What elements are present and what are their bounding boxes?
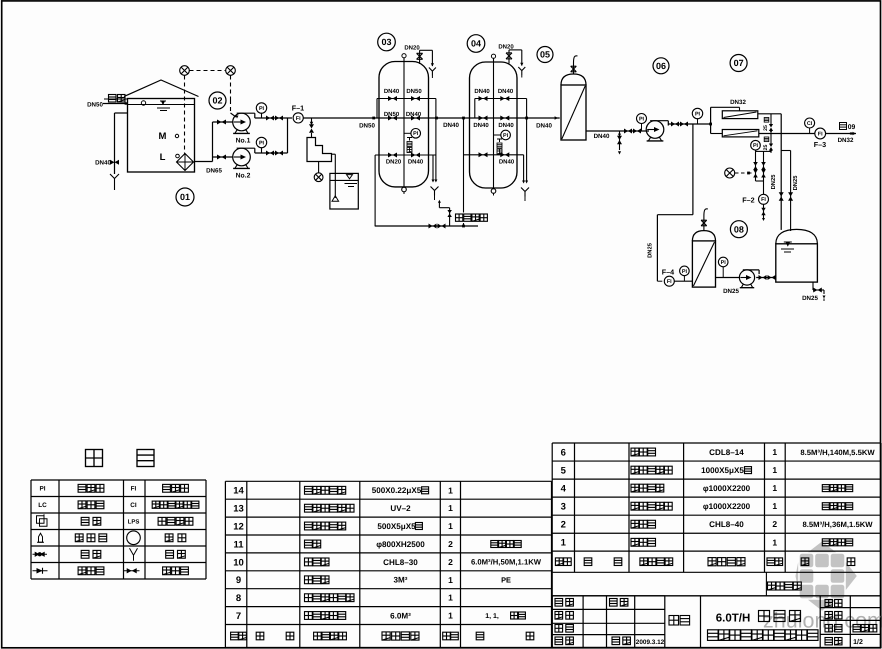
instrument PI pump1 — [256, 103, 266, 113]
svg-text:2: 2 — [448, 557, 453, 567]
vessel V03 top nozzle — [402, 54, 406, 58]
svg-text:PI: PI — [682, 269, 688, 275]
wire P10 discharge — [756, 277, 776, 279]
wire V03 right loop — [435, 99, 437, 182]
svg-text:1: 1 — [772, 537, 777, 547]
wire lamp to valves — [749, 172, 752, 174]
instrument FI F-1 — [293, 113, 303, 123]
svg-text:DN40: DN40 — [594, 133, 610, 140]
RO module 2 — [722, 130, 759, 137]
valve V04 up-left — [479, 96, 488, 101]
wire drain branch 05 — [619, 131, 621, 150]
wire V03 left bypass — [376, 99, 378, 119]
right equipment table grid — [552, 442, 881, 444]
legend table grid — [31, 479, 206, 481]
wire conc branch right — [781, 150, 790, 152]
svg-text:5: 5 — [561, 465, 567, 476]
wire V03 main crossing — [379, 117, 429, 119]
legend r4 circle symbol — [127, 531, 141, 545]
svg-text:DN32: DN32 — [730, 99, 746, 106]
pump P10 pure water — [739, 270, 754, 285]
tag 07 — [730, 55, 747, 72]
RO module 1 — [722, 111, 758, 119]
legend r2 conductivity — [152, 501, 159, 508]
instrument PI after F08 — [718, 257, 728, 267]
valve check down — [309, 124, 314, 133]
label conc1 (hanzi+25) — [764, 118, 769, 123]
label raw-water (hanzi) — [109, 95, 117, 103]
wire dashed level probe — [184, 76, 186, 154]
tank T01 water level line — [128, 104, 195, 106]
svg-text:DN40: DN40 — [498, 122, 514, 129]
vessel V04 bottom drain — [491, 189, 496, 194]
construction-unit row — [765, 572, 767, 596]
valve air check — [447, 210, 452, 217]
svg-text:DN40: DN40 — [536, 123, 552, 130]
valve conc v1 — [779, 192, 784, 201]
wire V03 vent line — [419, 50, 421, 64]
valve tank drain — [110, 160, 119, 165]
drain Y V03 vent — [431, 71, 433, 75]
wire dashed lamp — [735, 172, 747, 174]
svg-text:No.2: No.2 — [236, 173, 251, 180]
legend r5 discharge — [166, 550, 174, 558]
wire P06 discharge — [668, 123, 710, 125]
legend r4 water-ejector — [75, 534, 83, 542]
svg-text:DN40: DN40 — [474, 88, 490, 95]
svg-text:11: 11 — [233, 539, 244, 550]
wire discharge header — [287, 118, 289, 153]
node air junction — [462, 225, 465, 228]
legend r6 stop valve symbol — [124, 570, 140, 572]
wire recirc H — [756, 150, 772, 152]
wire pump06 junction down — [692, 124, 694, 215]
svg-text:CHL8–40: CHL8–40 — [709, 520, 744, 529]
svg-text:F–3: F–3 — [814, 140, 826, 149]
svg-text:25: 25 — [763, 145, 769, 151]
valve V03 up-left — [388, 96, 397, 101]
svg-text:04: 04 — [471, 39, 481, 49]
svg-text:1, 1,: 1, 1, — [485, 613, 499, 620]
wire V03 backwash down — [374, 155, 376, 226]
drain Y symbol — [114, 179, 116, 185]
svg-text:01: 01 — [180, 192, 190, 202]
instrument PI V04 — [501, 130, 511, 140]
svg-text:CI: CI — [807, 121, 813, 127]
wire V04 main crossing — [470, 117, 518, 119]
lamp ejector — [314, 173, 323, 182]
svg-text:1000X5μX5: 1000X5μX5 — [701, 466, 744, 475]
instrument PI before F08 — [680, 266, 690, 276]
wire V03 upper branch — [377, 98, 436, 100]
ejector (water jet) step shape — [307, 138, 332, 162]
svg-text:L: L — [160, 152, 166, 163]
svg-text:4: 4 — [561, 484, 567, 495]
svg-text:CI: CI — [130, 502, 137, 509]
wire V04 left bypass — [474, 99, 476, 119]
node RO feed junction — [709, 123, 712, 126]
svg-text:PE: PE — [501, 576, 511, 585]
svg-text:DN20: DN20 — [498, 43, 514, 50]
valve recirc 1 — [753, 170, 758, 178]
filter F05 dome — [561, 74, 586, 85]
svg-text:CHL8–30: CHL8–30 — [383, 558, 418, 567]
wire main 03-04 — [429, 117, 470, 119]
pure water tank body — [776, 244, 818, 282]
filter F08 dome — [692, 231, 715, 241]
label to-09 (hanzi+09) — [840, 123, 847, 130]
tag 03 — [378, 33, 396, 51]
svg-text:φ800XH2500: φ800XH2500 — [376, 540, 425, 549]
svg-text:03: 03 — [381, 37, 391, 47]
instrument FI F-3 — [815, 128, 826, 139]
svg-text:PI: PI — [259, 106, 265, 112]
svg-text:FI: FI — [667, 279, 672, 285]
valve V03 main-right — [411, 116, 420, 121]
tb scale — [825, 600, 832, 607]
valve pump1 discharge dbl — [266, 116, 274, 121]
wire compressed air main — [375, 225, 478, 227]
valve V03 up-right — [411, 96, 420, 101]
valve pump2 suction — [217, 155, 226, 160]
valve V04 main-right — [500, 116, 509, 121]
svg-text:2: 2 — [448, 539, 453, 549]
vessel V04 top nozzle — [491, 54, 495, 58]
label conc2 (hanzi+25) — [764, 137, 769, 142]
wire recirc V2 — [763, 151, 765, 194]
svg-text:PI: PI — [695, 111, 701, 117]
svg-text:DN50: DN50 — [384, 111, 400, 118]
svg-text:PI: PI — [721, 260, 727, 266]
drain Y V03 — [434, 191, 436, 196]
valve P06 discharge dbl — [671, 122, 679, 127]
svg-text:06: 06 — [656, 61, 666, 71]
svg-text:No.1: No.1 — [236, 138, 251, 145]
svg-text:DN50: DN50 — [87, 102, 103, 109]
svg-text:DN32: DN32 — [838, 137, 854, 144]
svg-text:6.0M³: 6.0M³ — [390, 611, 411, 620]
arrows V04 drain — [522, 181, 525, 184]
svg-text:14: 14 — [233, 486, 244, 497]
valve V04 up-right — [500, 96, 509, 101]
chem tank level mark — [347, 175, 353, 179]
valve V04 main-left — [479, 116, 488, 121]
wire pump1 discharge — [255, 117, 288, 119]
svg-text:2: 2 — [772, 519, 777, 529]
valve V03 lo-right — [411, 153, 420, 158]
svg-text:500X0.22μX5: 500X0.22μX5 — [372, 486, 422, 495]
svg-text:8.5M³/H,36M,1.5KW: 8.5M³/H,36M,1.5KW — [802, 520, 873, 529]
svg-text:13: 13 — [233, 504, 244, 515]
svg-text:LC: LC — [38, 502, 47, 509]
legend r2 level-meter — [78, 501, 86, 509]
instrument FI F-4 — [664, 276, 674, 286]
svg-text:3: 3 — [561, 502, 566, 513]
vessel V04 center pipe — [493, 58, 495, 188]
svg-text:PI: PI — [259, 140, 265, 146]
legend r6 stop-valve — [163, 567, 171, 575]
wire recirc join — [756, 180, 764, 182]
svg-text:2: 2 — [561, 520, 566, 531]
svg-text:6.0M³/H,50M,1.1KW: 6.0M³/H,50M,1.1KW — [471, 558, 542, 567]
svg-text:8: 8 — [236, 593, 241, 604]
valve pump2 discharge dbl — [266, 151, 274, 156]
svg-text:500X5μX5: 500X5μX5 — [377, 522, 416, 531]
instrument PI pump2 — [256, 137, 266, 147]
legend r4 ejector symbol — [39, 533, 43, 542]
title block grid — [552, 595, 665, 597]
instrument PI after P06 — [692, 108, 702, 118]
wire product out — [826, 133, 856, 135]
svg-text:1: 1 — [561, 538, 567, 549]
svg-text:12: 12 — [233, 521, 244, 532]
wire V04 right loop — [526, 99, 528, 183]
tag 02 — [209, 92, 226, 109]
wire header to F-1 — [288, 117, 293, 119]
tank T01 body — [128, 99, 195, 173]
tank T01 roof — [124, 80, 199, 97]
svg-text:DN25: DN25 — [792, 175, 799, 191]
svg-text:DN50: DN50 — [359, 123, 375, 130]
filter F08 body — [692, 241, 715, 287]
wire F-2 drain — [763, 204, 765, 219]
wire dashed to pump control — [230, 76, 232, 101]
legend r1 pressure-gauge — [78, 484, 86, 492]
wire recirc V1 — [755, 151, 757, 181]
tag 05 — [537, 47, 553, 63]
svg-text:DN20: DN20 — [404, 44, 420, 51]
pump P06 high pressure — [646, 121, 664, 139]
chem tank foot valve — [332, 196, 339, 201]
svg-text:PI: PI — [39, 486, 45, 493]
instrument PI before pump06 — [637, 114, 647, 124]
svg-text:1: 1 — [772, 465, 777, 475]
wire tank outlet DN65 — [195, 161, 213, 163]
node V03 outlet — [435, 117, 438, 120]
svg-text:1: 1 — [448, 485, 453, 495]
svg-text:1: 1 — [448, 575, 453, 585]
label compressed-air (hanzi) — [454, 213, 488, 224]
center table header — [231, 632, 239, 640]
wire V03 lower branch — [375, 154, 436, 156]
wire raw water inlet — [103, 103, 128, 105]
svg-text:DN50: DN50 — [406, 88, 422, 95]
svg-text:1: 1 — [448, 611, 453, 621]
valve V04 vent — [506, 53, 512, 59]
lamp LS-A — [180, 66, 190, 76]
svg-text:10: 10 — [233, 557, 244, 568]
valve drain 05 — [617, 136, 622, 144]
filter F08 vent — [703, 216, 705, 231]
svg-text:3M³: 3M³ — [394, 576, 408, 585]
svg-text:02: 02 — [212, 96, 222, 106]
svg-text:DN40: DN40 — [499, 158, 515, 165]
wire concentrate drop 2 — [770, 134, 772, 144]
wire valve to ejector — [311, 133, 313, 138]
wire pump suction manifold — [213, 121, 234, 123]
svg-text:25: 25 — [763, 125, 769, 131]
svg-text:6.0T/H: 6.0T/H — [716, 613, 751, 625]
svg-text:LPS: LPS — [128, 519, 140, 526]
legend r3 low-pressure-switch — [158, 517, 166, 525]
vessel V03 shell — [379, 62, 429, 187]
tb stage — [825, 625, 832, 632]
tb date — [612, 637, 620, 645]
svg-text:DN40: DN40 — [406, 111, 422, 118]
wire RO feed bottom — [711, 133, 723, 135]
tb page — [825, 638, 832, 645]
svg-text:08: 08 — [734, 224, 744, 234]
node V03 inlet — [372, 117, 375, 120]
svg-text:CDL8–14: CDL8–14 — [709, 448, 744, 457]
svg-text:05: 05 — [540, 50, 550, 60]
svg-text:DN40: DN40 — [473, 122, 489, 129]
wire ejector suction — [332, 153, 336, 155]
tag 04 — [467, 35, 485, 53]
svg-text:1: 1 — [448, 521, 453, 531]
tb drawing-name label — [669, 616, 679, 626]
tank T01 float — [141, 101, 145, 105]
sampling tap V03 — [409, 138, 411, 141]
wire ejector drain stem — [318, 162, 320, 173]
wire RO1 concentrate — [758, 113, 781, 115]
wire F05 outlet — [586, 130, 649, 132]
svg-text:DN25: DN25 — [802, 295, 818, 302]
tb review — [555, 637, 563, 645]
wire dashed lamp link — [190, 70, 226, 72]
vessel V04 shell — [470, 62, 518, 188]
svg-text:DN40: DN40 — [443, 122, 459, 129]
svg-text:2009.3.12: 2009.3.12 — [636, 639, 665, 646]
wire air injector riser — [449, 208, 451, 226]
instrument PI RO — [751, 140, 761, 150]
valve V03 lo-left — [388, 153, 397, 158]
svg-text:1: 1 — [772, 447, 777, 457]
pump No.1 — [233, 113, 251, 131]
arrows V03 drain — [432, 180, 435, 183]
svg-text:PI: PI — [639, 116, 645, 122]
node V04 inlet — [462, 117, 465, 120]
svg-text:1/2: 1/2 — [853, 638, 863, 646]
vessel V03 bottom drain — [402, 187, 407, 192]
legend title (hanzi large) — [86, 450, 103, 467]
legend r5 valve — [81, 550, 89, 558]
svg-text:1: 1 — [772, 483, 777, 493]
svg-text:FI: FI — [818, 131, 823, 137]
svg-text:PI: PI — [753, 143, 759, 149]
svg-text:M: M — [159, 131, 167, 142]
lamp RO flush — [725, 168, 735, 178]
drain Y V04 — [524, 192, 526, 197]
svg-text:07: 07 — [734, 58, 744, 68]
vessel V03 center pipe — [403, 58, 405, 187]
pump No.2 — [233, 148, 251, 166]
svg-text:09: 09 — [848, 124, 856, 131]
svg-text:DN25: DN25 — [770, 174, 777, 190]
svg-text:DN20: DN20 — [386, 158, 402, 165]
valve P10 discharge dbl — [759, 275, 767, 280]
wire tank drain — [115, 112, 128, 114]
wire F08 outlet — [716, 277, 740, 279]
chemical tank — [330, 173, 358, 209]
pure water tank dome — [776, 229, 818, 243]
sampling tap V04 — [499, 139, 501, 142]
legend r5 Y symbol — [133, 555, 135, 561]
valve air dbl — [429, 224, 437, 229]
svg-text:PI: PI — [503, 133, 509, 139]
tb fig-no — [825, 612, 832, 619]
lamp LS-B — [226, 66, 236, 76]
wire main line to 03 — [303, 117, 379, 119]
legend r3 sampling — [81, 517, 89, 525]
svg-text:1: 1 — [448, 593, 453, 603]
svg-text:PI: PI — [413, 131, 419, 137]
legend r5 valve symbol — [33, 553, 48, 555]
svg-text:φ1000X2200: φ1000X2200 — [703, 502, 751, 511]
svg-text:DN40: DN40 — [408, 158, 424, 165]
node V04 outlet — [525, 117, 528, 120]
svg-text:FI: FI — [296, 116, 301, 122]
wire V04 upper branch — [475, 98, 527, 100]
wire RO feed top — [711, 106, 740, 108]
wire concentrate drop 1 — [770, 114, 772, 124]
wire concentrate header down — [780, 114, 782, 230]
valve conc v2 — [788, 192, 793, 201]
legend r6 check-valve — [78, 567, 86, 575]
instrument FI F-2 — [759, 194, 769, 204]
filter F05 vent — [573, 63, 575, 74]
tank T01 level symbol — [160, 100, 166, 102]
svg-text:FI: FI — [131, 486, 137, 493]
instrument CI — [805, 118, 815, 128]
svg-text:8.5M³/H,140M,5.5KW: 8.5M³/H,140M,5.5KW — [800, 448, 875, 457]
mixer diamond in tank — [177, 154, 194, 171]
drain Y V04 vent — [521, 71, 523, 75]
tb design — [555, 599, 563, 607]
wire V04 lower branch — [464, 154, 524, 156]
center equipment table grid — [225, 480, 551, 482]
tb title line2 — [708, 630, 719, 641]
svg-text:DN40: DN40 — [384, 88, 400, 95]
svg-text:F–1: F–1 — [292, 104, 304, 113]
svg-text:φ1000X2200: φ1000X2200 — [703, 484, 751, 493]
wire RO2 permeate — [759, 133, 815, 135]
svg-text:6: 6 — [561, 447, 566, 458]
pure tank level — [784, 241, 792, 243]
wire V04 air riser — [463, 118, 465, 226]
svg-text:DN65: DN65 — [206, 168, 222, 175]
legend r4 instrument — [165, 534, 173, 542]
tb proof — [555, 625, 563, 633]
valve V03 vent — [417, 53, 423, 59]
svg-text:FI: FI — [761, 197, 766, 203]
wire tank drain — [812, 282, 814, 290]
tag 08 — [730, 221, 747, 238]
svg-text:DN25: DN25 — [647, 242, 654, 258]
svg-text:9: 9 — [236, 575, 241, 586]
svg-text:7: 7 — [236, 611, 241, 622]
wire branch down from main — [311, 118, 313, 124]
svg-text:F–2: F–2 — [742, 196, 754, 205]
valve pump1 suction — [217, 120, 226, 125]
instrument PI V03 — [411, 129, 421, 139]
svg-text:DN25: DN25 — [723, 288, 739, 295]
filter F05 body — [561, 85, 586, 140]
svg-text:DN40: DN40 — [498, 88, 514, 95]
svg-text:UV–2: UV–2 — [390, 504, 411, 513]
wire pump2 discharge — [255, 152, 288, 154]
legend r1 flow-meter — [163, 484, 171, 492]
